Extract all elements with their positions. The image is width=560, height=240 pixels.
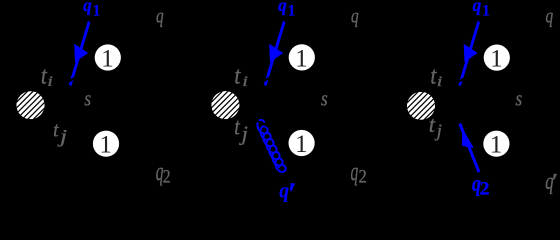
label s (gray), panel 1	[84, 86, 91, 110]
label q1 (blue), panel 3	[473, 0, 482, 15]
svg-text:q: q	[546, 4, 554, 27]
svg-text:1: 1	[482, 3, 489, 20]
white circle vertex "1" upper, panel 1	[95, 44, 121, 70]
label s (gray), panel 2	[321, 86, 328, 110]
svg-text:t: t	[429, 112, 436, 137]
label s (gray), panel 3	[516, 86, 523, 110]
svg-text:t: t	[53, 119, 59, 142]
label t_i (gray), panel 2	[234, 62, 241, 90]
label t_j (gray), panel 3	[429, 112, 436, 137]
svg-text:q: q	[473, 0, 482, 15]
label t_j (gray), panel 2	[234, 113, 240, 140]
label q' outgoing (gray), panel 3	[545, 167, 554, 195]
svg-text:′: ′	[288, 176, 297, 204]
svg-text:q: q	[156, 4, 164, 27]
label q outgoing (gray), panel 3	[546, 4, 554, 27]
white circle vertex "1" lower, panel 1	[93, 131, 119, 157]
lower leg wire: blob to circle 1, panel 1	[31, 105, 107, 144]
svg-text:q: q	[83, 0, 92, 15]
svg-text:2: 2	[480, 179, 490, 199]
lower leg wire: blob to circle 1, panel 3	[421, 106, 496, 144]
incoming parton q1 fermion line (blue), panel 2	[265, 22, 284, 86]
svg-text:1: 1	[99, 130, 112, 158]
label q1 (blue), panel 2	[278, 0, 287, 15]
svg-text:1: 1	[490, 44, 503, 72]
svg-text:2: 2	[359, 166, 367, 187]
white circle vertex "1" lower, panel 2	[289, 130, 315, 156]
incoming parton q1 fermion line (blue), panel 1	[70, 22, 89, 86]
arrowhead on q1 line, panel 2	[269, 44, 283, 63]
arrowhead on q2 line, panel 3	[462, 128, 474, 148]
svg-text:′: ′	[552, 170, 558, 194]
lower leg wire: blob to circle 1, panel 2	[225, 105, 301, 143]
upper leg wire: blob to circle 1, panel 3	[421, 58, 497, 106]
svg-text:q: q	[351, 157, 359, 186]
upper leg wire: blob to circle 1, panel 1	[31, 58, 108, 106]
svg-text:i: i	[242, 73, 248, 89]
arrowhead on q1 line, panel 3	[464, 44, 478, 63]
svg-text:t: t	[234, 113, 240, 140]
svg-text:j: j	[435, 121, 442, 140]
label q outgoing (gray), panel 1	[156, 4, 164, 27]
label t_i (gray), panel 3	[430, 62, 437, 90]
label q2 incoming (blue), panel 3	[472, 172, 481, 197]
label q outgoing (gray), panel 2	[351, 4, 359, 27]
incoming parton q1 fermion line (blue), panel 3	[460, 22, 479, 86]
label q1 (blue), panel 1	[83, 0, 92, 15]
svg-text:1: 1	[101, 44, 114, 72]
svg-text:1: 1	[288, 3, 295, 20]
svg-text:1: 1	[93, 3, 100, 20]
incoming parton q2 fermion line (blue), panel 3	[460, 124, 479, 173]
svg-text:2: 2	[163, 166, 171, 187]
svg-text:1: 1	[490, 130, 503, 158]
svg-text:q: q	[351, 4, 359, 27]
label q2 outgoing (gray), panel 1	[156, 157, 164, 186]
label t_i (gray), panel 1	[41, 62, 48, 90]
label q' radiated gluon (blue), panel 2	[279, 177, 289, 202]
svg-text:s: s	[516, 86, 523, 110]
svg-text:s: s	[84, 86, 91, 110]
upper leg wire: blob to circle 1, panel 2	[225, 57, 301, 105]
label t_j (gray), panel 1	[53, 119, 59, 142]
label q2 outgoing (gray), panel 2	[351, 157, 359, 186]
arrowhead on q1 line, panel 1	[74, 44, 88, 63]
svg-text:i: i	[437, 73, 443, 89]
white circle vertex "1" upper, panel 2	[289, 44, 315, 70]
white circle vertex "1" lower, panel 3	[483, 131, 509, 157]
svg-text:1: 1	[295, 130, 308, 158]
gluon coil q' (blue), panel 2	[257, 120, 285, 172]
svg-text:q: q	[278, 0, 287, 15]
svg-text:1: 1	[295, 44, 308, 72]
svg-text:s: s	[321, 86, 328, 110]
svg-text:i: i	[47, 73, 53, 89]
white circle vertex "1" upper, panel 3	[484, 45, 510, 71]
